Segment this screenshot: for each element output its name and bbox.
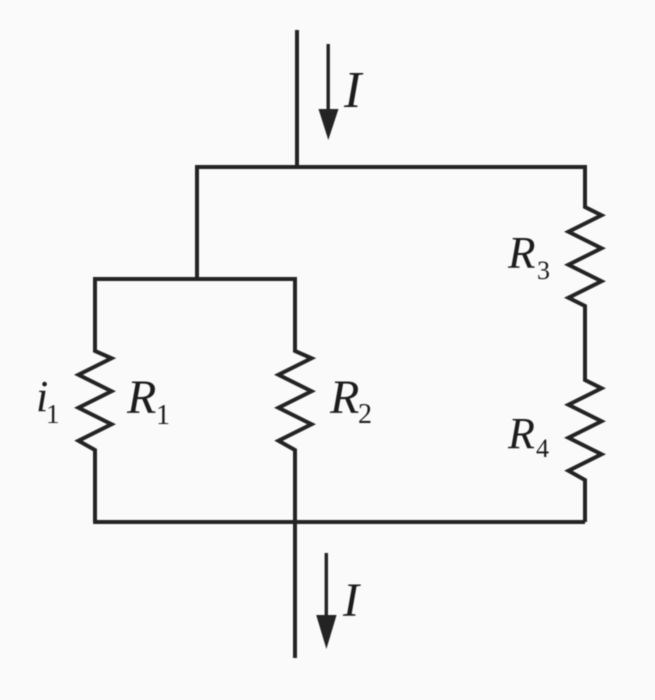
svg-text:1: 1 [156, 400, 170, 431]
svg-text:1: 1 [46, 399, 60, 429]
svg-text:R: R [126, 371, 156, 424]
svg-text:I: I [343, 62, 364, 119]
svg-text:I: I [342, 574, 361, 627]
svg-text:R: R [329, 371, 359, 424]
svg-text:3: 3 [537, 256, 550, 285]
svg-text:R: R [507, 409, 535, 458]
svg-text:2: 2 [358, 399, 372, 430]
svg-text:4: 4 [536, 434, 549, 463]
svg-text:R: R [507, 228, 536, 278]
